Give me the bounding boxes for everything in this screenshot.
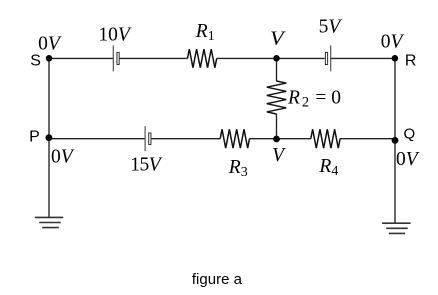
svg-text:R: R — [405, 52, 417, 69]
svg-text:Q: Q — [404, 125, 416, 142]
svg-text:5V: 5V — [319, 17, 343, 38]
svg-text:V: V — [270, 29, 286, 50]
svg-text:R4: R4 — [318, 156, 338, 179]
svg-text:V: V — [272, 145, 286, 166]
svg-text:15V: 15V — [130, 155, 163, 176]
svg-text:S: S — [30, 52, 41, 69]
svg-text:0V: 0V — [381, 32, 405, 53]
svg-text:R1: R1 — [195, 21, 215, 44]
svg-text:0V: 0V — [38, 34, 62, 55]
svg-text:P: P — [29, 129, 40, 146]
svg-text:figure a: figure a — [192, 271, 243, 288]
svg-text:0V: 0V — [396, 149, 420, 170]
svg-text:R2= 0: R2= 0 — [287, 88, 341, 111]
svg-text:0V: 0V — [51, 146, 75, 167]
svg-text:R3: R3 — [228, 157, 248, 180]
svg-text:10V: 10V — [98, 24, 131, 45]
